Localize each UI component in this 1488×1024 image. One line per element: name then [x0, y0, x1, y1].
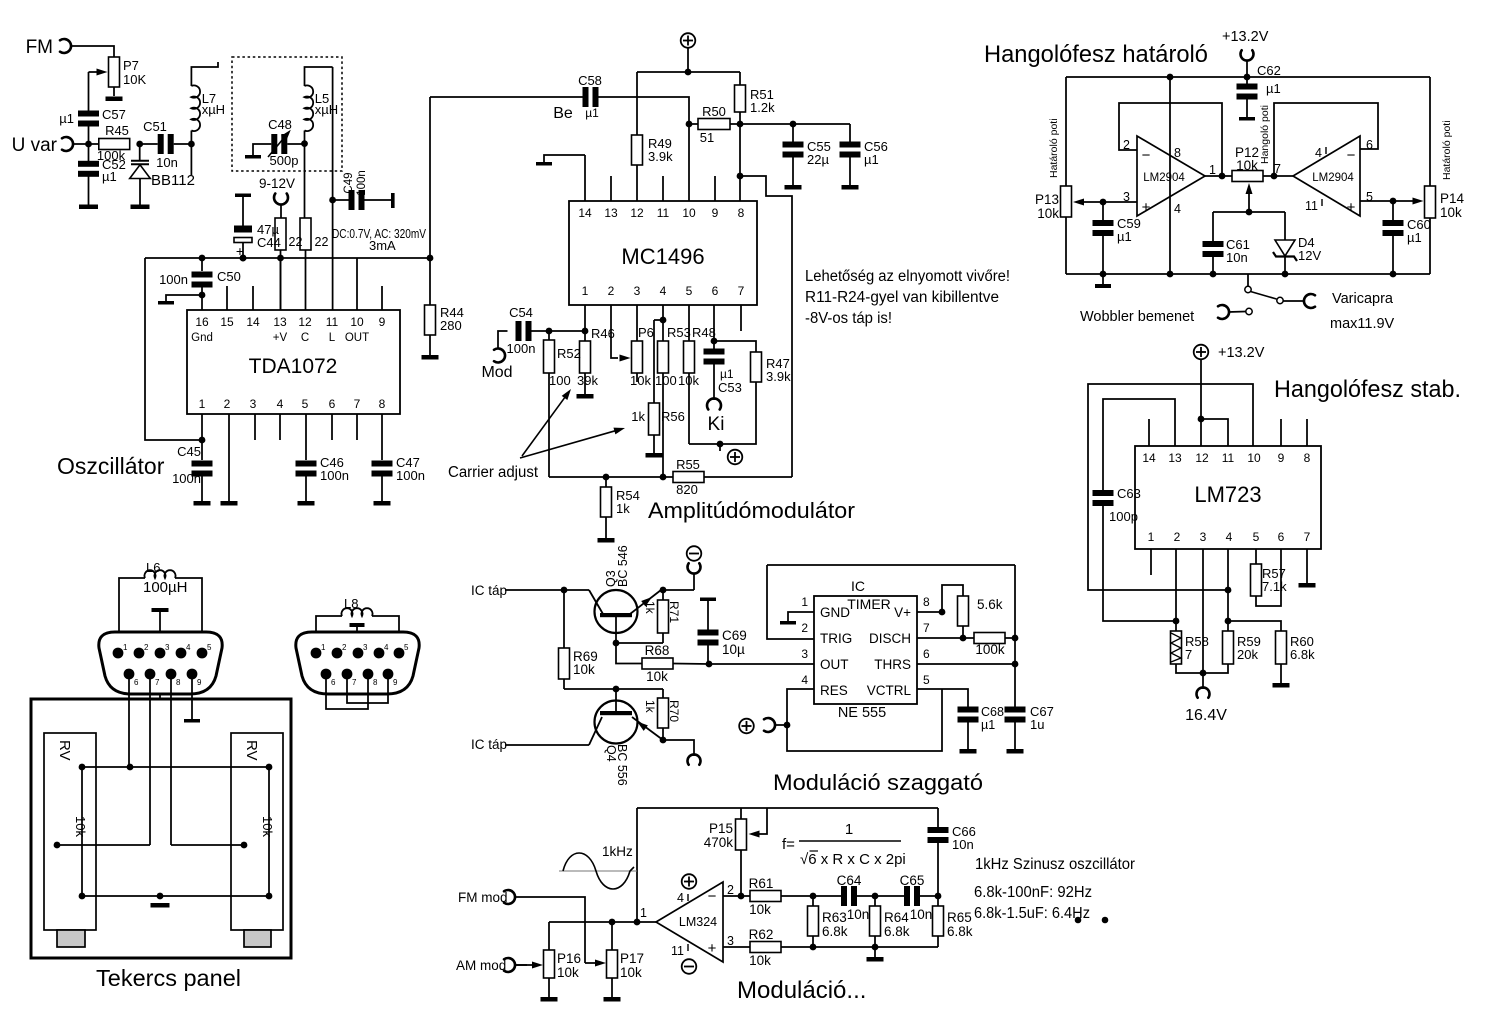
svg-text:√6 x R x C x 2pi: √6 x R x C x 2pi	[800, 851, 906, 868]
svg-text:C50: C50	[217, 269, 241, 284]
svg-text:µ1: µ1	[585, 106, 599, 120]
svg-text:RES: RES	[820, 683, 848, 698]
svg-text:Wobbler bemenet: Wobbler bemenet	[1080, 309, 1194, 325]
svg-text:−: −	[1347, 147, 1356, 164]
svg-text:10k: 10k	[646, 669, 668, 684]
svg-text:100n: 100n	[507, 341, 536, 356]
svg-text:6: 6	[923, 647, 930, 661]
svg-text:C49: C49	[343, 172, 355, 193]
svg-text:IC táp: IC táp	[471, 583, 507, 598]
svg-text:P7: P7	[123, 58, 139, 73]
svg-text:14: 14	[1142, 451, 1156, 465]
svg-text:RV: RV	[56, 740, 73, 761]
svg-text:10k: 10k	[620, 965, 642, 980]
svg-text:100n: 100n	[159, 272, 188, 287]
svg-text:Carrier adjust: Carrier adjust	[448, 464, 539, 481]
svg-text:8: 8	[1304, 451, 1311, 465]
svg-text:9: 9	[379, 315, 386, 329]
svg-text:4: 4	[384, 643, 389, 652]
svg-text:13: 13	[273, 315, 287, 329]
svg-text:6: 6	[329, 397, 336, 411]
svg-text:OUT: OUT	[820, 657, 849, 672]
svg-text:L: L	[329, 332, 336, 344]
svg-text:TIMER: TIMER	[847, 596, 891, 612]
svg-text:500p: 500p	[270, 153, 299, 168]
svg-text:6: 6	[134, 678, 139, 687]
svg-text:7: 7	[738, 284, 745, 298]
svg-text:+13.2V: +13.2V	[1218, 345, 1265, 361]
svg-text:4: 4	[1226, 530, 1233, 544]
svg-text:6: 6	[1366, 138, 1373, 152]
svg-text:10k: 10k	[749, 902, 771, 917]
svg-text:11: 11	[657, 206, 670, 220]
svg-text:11: 11	[326, 315, 339, 329]
svg-text:6: 6	[1278, 530, 1285, 544]
svg-text:3: 3	[250, 397, 257, 411]
svg-text:LM2904: LM2904	[1143, 172, 1185, 184]
svg-text:10k: 10k	[630, 373, 651, 388]
svg-text:3: 3	[634, 284, 641, 298]
svg-text:C68: C68	[981, 705, 1004, 719]
svg-text:R62: R62	[749, 927, 774, 942]
svg-text:10k: 10k	[557, 965, 579, 980]
svg-text:22µ: 22µ	[807, 152, 829, 167]
svg-text:−: −	[708, 888, 717, 905]
svg-text:13: 13	[604, 206, 618, 220]
svg-text:5: 5	[923, 673, 930, 687]
svg-text:10: 10	[1247, 451, 1261, 465]
svg-text:Gnd: Gnd	[191, 332, 213, 344]
svg-text:12: 12	[298, 315, 312, 329]
svg-text:1kHz Szinusz oszcillátor: 1kHz Szinusz oszcillátor	[975, 856, 1136, 873]
svg-text:10n: 10n	[156, 155, 178, 170]
svg-text:IC táp: IC táp	[471, 737, 507, 752]
svg-text:4: 4	[1315, 146, 1322, 160]
svg-text:OUT: OUT	[345, 332, 369, 344]
svg-text:GND: GND	[820, 605, 850, 620]
svg-text:R71: R71	[667, 601, 681, 623]
svg-text:7: 7	[155, 678, 160, 687]
svg-text:10k: 10k	[1440, 205, 1462, 220]
svg-text:14: 14	[246, 315, 260, 329]
svg-text:f=: f=	[782, 836, 795, 853]
svg-text:7: 7	[1274, 162, 1281, 176]
svg-text:R52: R52	[557, 346, 581, 361]
svg-text:LM723: LM723	[1194, 482, 1261, 507]
svg-text:16.4V: 16.4V	[1185, 707, 1227, 724]
svg-text:xµH: xµH	[315, 102, 338, 117]
svg-text:µ1: µ1	[102, 169, 117, 184]
svg-text:3: 3	[363, 643, 368, 652]
svg-text:4: 4	[186, 643, 191, 652]
svg-text:P17: P17	[620, 951, 644, 966]
svg-text:+13.2V: +13.2V	[1222, 29, 1269, 45]
svg-text:5: 5	[1366, 190, 1373, 204]
svg-text:1: 1	[845, 821, 853, 838]
svg-text:100: 100	[655, 373, 677, 388]
svg-text:100n: 100n	[320, 468, 349, 483]
svg-text:1kHz: 1kHz	[602, 844, 633, 859]
svg-text:100k: 100k	[975, 642, 1005, 657]
svg-text:µ1: µ1	[1117, 229, 1132, 244]
svg-text:2: 2	[727, 883, 734, 897]
svg-text:11: 11	[1305, 199, 1318, 213]
svg-text:Oszcillátor: Oszcillátor	[57, 453, 165, 479]
svg-text:Moduláció...: Moduláció...	[737, 977, 866, 1004]
svg-text:+V: +V	[273, 332, 288, 344]
svg-text:R45: R45	[105, 123, 129, 138]
svg-text:BB112: BB112	[151, 172, 195, 189]
svg-text:8: 8	[1174, 146, 1181, 160]
svg-text:6.8k: 6.8k	[1290, 647, 1315, 662]
svg-text:C65: C65	[900, 873, 925, 888]
svg-text:µ1: µ1	[864, 152, 879, 167]
svg-text:1: 1	[1148, 530, 1155, 544]
svg-text:1.2k: 1.2k	[750, 100, 775, 115]
svg-text:1u: 1u	[1030, 717, 1044, 732]
svg-text:2: 2	[144, 643, 149, 652]
svg-text:10k: 10k	[73, 816, 88, 837]
svg-text:6.8k-100nF: 92Hz: 6.8k-100nF: 92Hz	[974, 884, 1092, 901]
svg-text:6: 6	[331, 678, 336, 687]
svg-text:µ1: µ1	[1266, 81, 1281, 96]
svg-text:3.9k: 3.9k	[766, 369, 791, 384]
svg-text:11: 11	[1222, 451, 1235, 465]
svg-text:µ1: µ1	[720, 367, 734, 381]
svg-text:22: 22	[289, 235, 303, 249]
svg-text:Lehetőség az elnyomott vivőre!: Lehetőség az elnyomott vivőre!	[805, 268, 1010, 285]
svg-text:Ki: Ki	[708, 414, 725, 435]
svg-text:Határoló poti: Határoló poti	[1048, 118, 1060, 178]
svg-text:10k: 10k	[749, 953, 771, 968]
svg-text:7: 7	[352, 678, 357, 687]
svg-text:MC1496: MC1496	[621, 244, 704, 269]
svg-text:IC: IC	[851, 578, 865, 594]
svg-text:TRIG: TRIG	[820, 631, 852, 646]
svg-text:20k: 20k	[1237, 647, 1258, 662]
svg-text:+: +	[1347, 199, 1356, 216]
svg-text:1: 1	[801, 595, 808, 609]
svg-text:7: 7	[1185, 647, 1192, 662]
svg-text:C48: C48	[268, 117, 292, 132]
svg-text:RV: RV	[243, 740, 260, 761]
svg-text:7: 7	[354, 397, 361, 411]
svg-text:4: 4	[801, 673, 808, 687]
svg-text:C53: C53	[718, 380, 742, 395]
svg-text:8: 8	[379, 397, 386, 411]
svg-text:C: C	[301, 332, 309, 344]
svg-text:100: 100	[549, 373, 571, 388]
svg-text:8: 8	[738, 206, 745, 220]
svg-text:R63: R63	[822, 910, 847, 925]
svg-text:R55: R55	[676, 457, 700, 472]
svg-text:1: 1	[199, 397, 206, 411]
svg-text:Mod: Mod	[481, 364, 512, 381]
svg-text:−: −	[1142, 147, 1151, 164]
svg-text:6: 6	[712, 284, 719, 298]
svg-text:NE 555: NE 555	[838, 705, 886, 721]
svg-text:R50: R50	[702, 104, 726, 119]
svg-text:14: 14	[578, 206, 592, 220]
svg-text:C69: C69	[722, 628, 747, 643]
svg-text:C64: C64	[837, 873, 862, 888]
svg-text:10k: 10k	[573, 662, 595, 677]
svg-text:5: 5	[302, 397, 309, 411]
svg-text:C45: C45	[177, 444, 201, 459]
svg-text:Moduláció szaggató: Moduláció szaggató	[773, 770, 983, 795]
svg-text:7.1k: 7.1k	[1262, 579, 1287, 594]
svg-text:1k: 1k	[643, 601, 657, 615]
svg-text:100n: 100n	[396, 468, 425, 483]
svg-text:8: 8	[923, 595, 930, 609]
svg-text:Hangolófesz határoló: Hangolófesz határoló	[984, 41, 1208, 68]
svg-text:4: 4	[277, 397, 284, 411]
svg-text:R61: R61	[749, 876, 774, 891]
svg-text:1k: 1k	[631, 409, 645, 424]
svg-text:P6: P6	[638, 325, 654, 340]
svg-text:10n: 10n	[952, 837, 974, 852]
svg-text:1k: 1k	[643, 700, 657, 714]
svg-text:1: 1	[321, 643, 326, 652]
svg-text:10k: 10k	[1037, 206, 1059, 221]
svg-text:P15: P15	[709, 821, 733, 836]
svg-text:3: 3	[165, 643, 170, 652]
svg-text:5: 5	[1253, 530, 1260, 544]
svg-text:51: 51	[700, 130, 714, 145]
svg-text:C57: C57	[102, 107, 126, 122]
svg-text:Hangolófesz stab.: Hangolófesz stab.	[1274, 376, 1461, 403]
svg-text:R48: R48	[692, 325, 716, 340]
svg-text:Varicapra: Varicapra	[1332, 291, 1394, 307]
svg-text:BC 556: BC 556	[615, 744, 629, 786]
svg-text:Határoló poti: Határoló poti	[1441, 120, 1453, 180]
svg-text:FM mod: FM mod	[458, 890, 508, 905]
svg-text:R11-R24-gyel van kibillentve: R11-R24-gyel van kibillentve	[805, 289, 999, 306]
svg-text:R56: R56	[661, 409, 685, 424]
svg-text:7: 7	[923, 621, 930, 635]
svg-text:µ1: µ1	[1407, 230, 1422, 245]
svg-text:2: 2	[224, 397, 231, 411]
svg-text:max11.9V: max11.9V	[1330, 316, 1395, 332]
svg-text:3: 3	[801, 647, 808, 661]
svg-text:5: 5	[207, 643, 212, 652]
svg-text:12: 12	[630, 206, 644, 220]
svg-text:820: 820	[676, 482, 698, 497]
svg-text:16: 16	[195, 315, 209, 329]
svg-text:7: 7	[1304, 530, 1311, 544]
svg-text:8: 8	[373, 678, 378, 687]
svg-text:3mA: 3mA	[369, 238, 396, 253]
svg-text:C63: C63	[1117, 486, 1141, 501]
svg-text:THRS: THRS	[874, 657, 911, 672]
svg-text:22: 22	[315, 235, 329, 249]
svg-text:6.8k: 6.8k	[884, 924, 910, 939]
svg-text:6.8k: 6.8k	[822, 924, 848, 939]
svg-text:9: 9	[393, 678, 398, 687]
svg-text:1: 1	[123, 643, 128, 652]
svg-text:10: 10	[682, 206, 696, 220]
svg-text:9: 9	[1278, 451, 1285, 465]
svg-text:DISCH: DISCH	[869, 631, 911, 646]
svg-text:9: 9	[197, 678, 202, 687]
svg-text:1: 1	[640, 906, 647, 920]
svg-text:R64: R64	[884, 910, 909, 925]
svg-text:4: 4	[1174, 202, 1181, 216]
svg-text:2: 2	[801, 621, 808, 635]
svg-text:100n: 100n	[172, 471, 201, 486]
svg-text:µ1: µ1	[981, 718, 995, 732]
svg-text:10µ: 10µ	[722, 642, 745, 657]
svg-text:100p: 100p	[1109, 509, 1138, 524]
svg-text:2: 2	[342, 643, 347, 652]
svg-text:-8V-os táp is!: -8V-os táp is!	[805, 310, 892, 327]
svg-text:VCTRL: VCTRL	[867, 683, 912, 698]
svg-text:C58: C58	[578, 73, 602, 88]
svg-text:V+: V+	[894, 605, 911, 620]
svg-text:10k: 10k	[260, 816, 275, 837]
svg-text:15: 15	[220, 315, 234, 329]
svg-text:+: +	[1142, 199, 1151, 216]
svg-text:9: 9	[712, 206, 719, 220]
svg-text:xµH: xµH	[202, 102, 225, 117]
svg-text:FM: FM	[26, 37, 53, 58]
svg-text:8: 8	[176, 678, 181, 687]
svg-text:C54: C54	[509, 305, 533, 320]
svg-text:11: 11	[671, 944, 684, 958]
svg-text:3.9k: 3.9k	[648, 149, 673, 164]
svg-text:R65: R65	[947, 910, 972, 925]
svg-text:R70: R70	[667, 700, 681, 722]
svg-text:U var: U var	[12, 135, 58, 156]
svg-text:12: 12	[1195, 451, 1209, 465]
svg-text:13: 13	[1168, 451, 1182, 465]
svg-text:10k: 10k	[1236, 158, 1258, 173]
svg-text:L8: L8	[344, 596, 358, 611]
svg-text:TDA1072: TDA1072	[249, 355, 338, 378]
svg-text:1: 1	[1209, 163, 1216, 177]
svg-text:5: 5	[404, 643, 409, 652]
svg-text:µ1: µ1	[59, 111, 74, 126]
svg-text:39k: 39k	[577, 373, 598, 388]
svg-text:1k: 1k	[616, 501, 630, 516]
svg-text:AM mod: AM mod	[456, 958, 506, 973]
svg-text:4: 4	[660, 284, 667, 298]
svg-text:Amplitúdómodulátor: Amplitúdómodulátor	[648, 498, 855, 523]
svg-text:10n: 10n	[910, 907, 933, 922]
svg-text:2: 2	[608, 284, 615, 298]
svg-text:10K: 10K	[123, 72, 146, 87]
svg-text:P14: P14	[1440, 191, 1465, 206]
svg-text:280: 280	[440, 318, 462, 333]
svg-text:9-12V: 9-12V	[259, 176, 295, 191]
svg-text:LM2904: LM2904	[1312, 172, 1354, 184]
svg-text:P13: P13	[1035, 192, 1059, 207]
svg-text:R53: R53	[667, 325, 691, 340]
svg-text:10n: 10n	[1226, 250, 1248, 265]
svg-text:10n: 10n	[847, 907, 870, 922]
svg-text:Be: Be	[553, 105, 573, 122]
svg-text:R68: R68	[645, 643, 670, 658]
svg-text:5: 5	[686, 284, 693, 298]
svg-text:6.8k: 6.8k	[947, 924, 973, 939]
svg-text:L6: L6	[146, 560, 160, 575]
svg-text:1: 1	[582, 284, 589, 298]
svg-text:5.6k: 5.6k	[977, 597, 1003, 612]
svg-text:P16: P16	[557, 951, 581, 966]
svg-text:6.8k-1.5uF: 6.4Hz: 6.8k-1.5uF: 6.4Hz	[974, 905, 1090, 922]
svg-text:470k: 470k	[704, 835, 734, 850]
svg-text:100n: 100n	[356, 170, 368, 196]
svg-text:LM324: LM324	[679, 915, 717, 929]
svg-text:3: 3	[1200, 530, 1207, 544]
svg-text:C51: C51	[143, 119, 167, 134]
svg-text:Tekercs panel: Tekercs panel	[96, 965, 241, 991]
svg-text:2: 2	[1174, 530, 1181, 544]
svg-text:10: 10	[350, 315, 364, 329]
svg-text:C44: C44	[257, 235, 281, 250]
svg-text:3: 3	[727, 934, 734, 948]
svg-text:12V: 12V	[1298, 248, 1321, 263]
svg-text:BC 546: BC 546	[616, 545, 630, 587]
svg-text:C62: C62	[1257, 63, 1281, 78]
svg-text:4: 4	[677, 891, 684, 905]
svg-text:100µH: 100µH	[143, 579, 188, 596]
svg-text:+: +	[708, 940, 717, 957]
svg-text:Hangoló poti: Hangoló poti	[1259, 105, 1271, 164]
